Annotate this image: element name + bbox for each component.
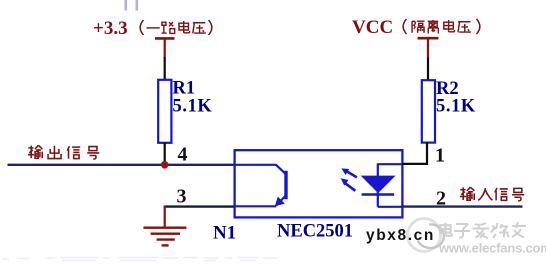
light arrow 1	[341, 168, 357, 177]
svg-text:5.1K: 5.1K	[173, 97, 213, 117]
ground	[143, 228, 186, 246]
power bar +3.3	[155, 38, 175, 57]
LED triangle	[362, 176, 395, 192]
decoration: cropped lavender marks top	[126, 0, 137, 11]
label 输入信号	[460, 187, 524, 201]
optocoupler N1 box	[235, 150, 403, 217]
svg-text:+3.3: +3.3	[93, 18, 128, 39]
LED bottom connector	[378, 206, 402, 208]
wire: R1 to node	[164, 143, 166, 165]
svg-text:4: 4	[178, 144, 188, 166]
LED top connector	[378, 163, 402, 165]
phototransistor collector line	[235, 165, 285, 174]
wire: VCC to R2	[427, 58, 429, 81]
watermark elecfans ball	[408, 219, 441, 252]
label 输出信号	[28, 145, 99, 159]
wire: +3.3 to R1	[164, 57, 166, 80]
wire: input signal net	[402, 205, 523, 207]
wire: output signal net	[8, 164, 235, 166]
svg-text:N1: N1	[213, 223, 236, 244]
svg-text:NEC2501: NEC2501	[277, 222, 353, 242]
svg-text:3: 3	[177, 186, 187, 208]
light arrow 2	[341, 178, 356, 191]
wire: ground drop	[164, 206, 166, 228]
svg-text:www.elecfans.com: www.elecfans.com	[438, 241, 546, 256]
resistor R1	[158, 80, 171, 143]
decoration: faint cropped caption row	[2, 258, 278, 261]
svg-text:1: 1	[435, 145, 445, 167]
LED vertical lead	[377, 164, 379, 207]
svg-text:VCC: VCC	[352, 17, 393, 38]
phototransistor emitter line	[235, 196, 285, 206]
LED cathode bar	[362, 193, 395, 196]
svg-text:ybx8.cn: ybx8.cn	[366, 227, 435, 244]
power port label +3.3（一路电压）	[93, 18, 128, 39]
wire: R2 to pin 1	[402, 142, 428, 164]
phototransistor base bar	[284, 171, 287, 199]
watermark swoosh behind ybx8.cn	[418, 224, 444, 248]
watermark 电子发烧友	[440, 222, 526, 238]
wire: pin 3 to ground elbow	[165, 205, 235, 207]
junction node pin 4	[161, 161, 169, 169]
svg-text:5.1K: 5.1K	[436, 97, 476, 117]
phototransistor emitter arrow	[275, 197, 285, 207]
power bar VCC	[418, 38, 439, 58]
svg-text:R1: R1	[173, 79, 196, 99]
resistor R2	[422, 80, 435, 142]
